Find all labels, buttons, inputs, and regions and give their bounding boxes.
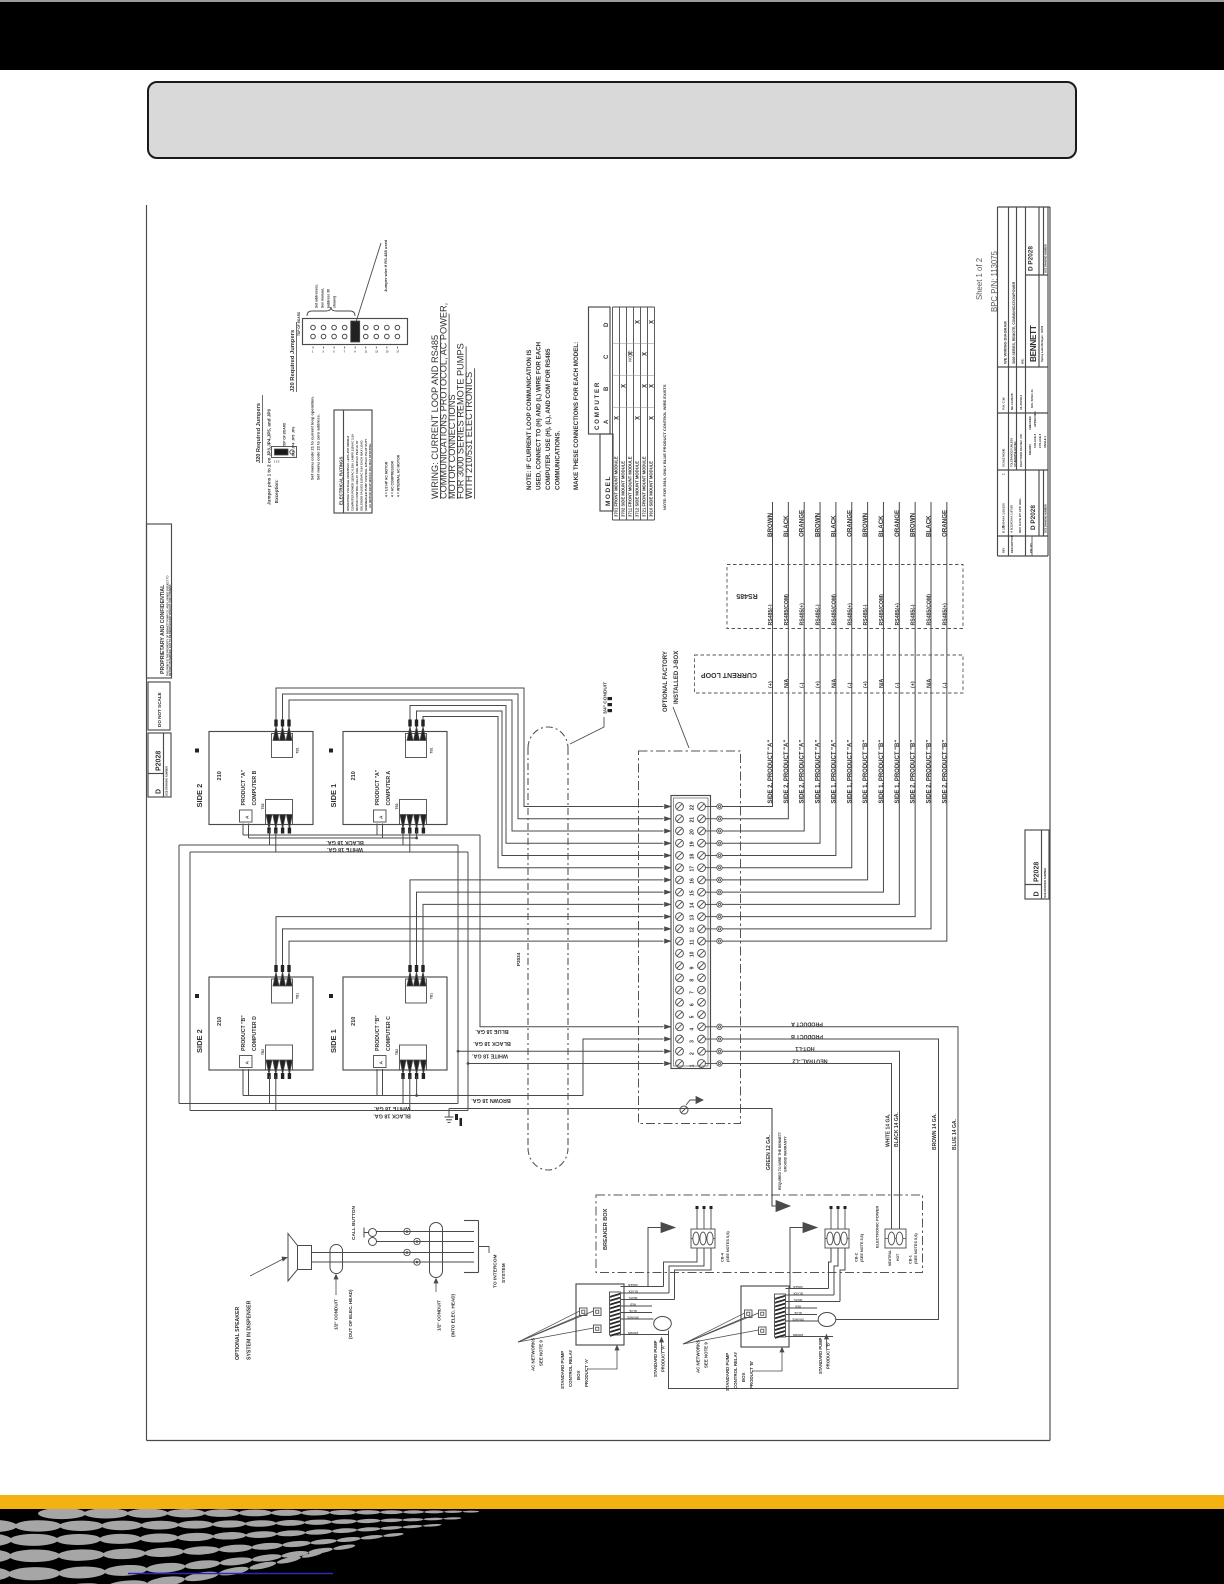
svg-text:(address 36: (address 36 — [327, 289, 331, 308]
circuit breaker CB-2 — [825, 1206, 849, 1248]
svg-text:BLACK: BLACK — [878, 515, 885, 537]
wire to RS-485 jumper note — [356, 243, 381, 322]
do not scale stamp — [148, 682, 170, 730]
svg-text:ELECTRONIC POWER: ELECTRONIC POWER — [875, 1206, 880, 1248]
svg-text:ORANGE: ORANGE — [627, 1315, 639, 1319]
svg-text:RS485(-): RS485(-) — [816, 604, 822, 625]
pump motor A — [654, 1317, 672, 1331]
svg-text:NEUTRAL: NEUTRAL — [888, 1250, 892, 1266]
svg-text:BOX: BOX — [741, 1372, 746, 1382]
svg-text:(SEE NOTES 5,6): (SEE NOTES 5,6) — [914, 1233, 918, 1264]
svg-text:SIDE 2: SIDE 2 — [195, 1029, 204, 1053]
relay box A label — [560, 1346, 619, 1390]
svg-text:N/A: N/A — [927, 679, 933, 688]
wire computer D ORANGE to terminal 11 — [289, 941, 664, 965]
svg-text:3701 FRONT MOUNT MODULE: 3701 FRONT MOUNT MODULE — [614, 456, 619, 517]
svg-text:N/A: N/A — [831, 679, 837, 688]
svg-text:P2034: P2034 — [516, 952, 521, 966]
AC networks note B — [696, 1340, 709, 1373]
svg-text:NEUTRAL.-L2: NEUTRAL.-L2 — [792, 1057, 827, 1063]
svg-text:15: 15 — [690, 890, 696, 896]
circuit breaker CB-4 — [691, 1206, 715, 1248]
svg-text:STANDARD PUMP: STANDARD PUMP — [818, 1337, 823, 1374]
AC networks note A — [531, 1338, 544, 1371]
svg-text:WE.: WE. — [1021, 358, 1025, 364]
svg-text:4 = 1/2 HP AC MOTOR: 4 = 1/2 HP AC MOTOR — [385, 461, 389, 497]
svg-text:MOTOR CONTROL RELAY COIL 115VA: MOTOR CONTROL RELAY COIL 115VAC PER UL 8… — [355, 440, 359, 511]
svg-text:BROWN: BROWN — [815, 512, 822, 537]
svg-text:SIDE 2, PRODUCT "B": SIDE 2, PRODUCT "B" — [927, 740, 933, 804]
current loop usage note — [526, 341, 562, 490]
svg-text:HOT: HOT — [896, 1253, 900, 1261]
svg-text:13: 13 — [375, 351, 378, 354]
svg-text:BLACK: BLACK — [783, 515, 790, 537]
svg-text:BPC P/N: 113075: BPC P/N: 113075 — [990, 250, 999, 312]
svg-text:TB1: TB1 — [430, 993, 434, 999]
svg-text:PRODUCT 'B': PRODUCT 'B' — [749, 1361, 754, 1389]
svg-text:AC MOTOR 1/2HP 115VAC 16A MAX: AC MOTOR 1/2HP 115VAC 16A MAX STARTING — [368, 443, 372, 508]
svg-text:WHITE 18 GA.: WHITE 18 GA. — [374, 1105, 410, 1111]
svg-text:GREEN 12 GA.: GREEN 12 GA. — [766, 1134, 772, 1170]
svg-text:REQUIRED TO WIRE THE BENNETT: REQUIRED TO WIRE THE BENNETT — [778, 1131, 782, 1190]
svg-text:13: 13 — [690, 915, 696, 921]
svg-text:SIDE 2, PRODUCT "B": SIDE 2, PRODUCT "B" — [911, 740, 917, 804]
svg-text:D: D — [604, 322, 610, 327]
model computer table — [589, 307, 655, 520]
svg-text:SIDE 1: SIDE 1 — [329, 784, 338, 808]
svg-text:X: X — [615, 416, 621, 420]
conduit label pointer — [570, 717, 604, 744]
svg-text:11: 11 — [690, 939, 696, 945]
sheet left border — [146, 205, 148, 1441]
white 18ga rail bottom — [190, 1110, 468, 1112]
svg-text:X: X — [650, 384, 656, 388]
svg-text:J20 Required Jumpers: J20 Required Jumpers — [290, 330, 296, 392]
svg-text:1/2" CONDUIT: 1/2" CONDUIT — [437, 1300, 442, 1331]
svg-text:SIDE 1, PRODUCT "A": SIDE 1, PRODUCT "A" — [816, 740, 822, 804]
relay B wire BLACK — [786, 1294, 835, 1296]
CB-1 label — [909, 1233, 919, 1264]
to intercom system label — [493, 1255, 508, 1289]
svg-text:GREEN: GREEN — [793, 1285, 803, 1289]
circuit breaker CB-1 — [885, 1229, 906, 1248]
svg-text:X: X — [636, 416, 642, 420]
svg-text:17: 17 — [690, 866, 696, 872]
svg-text:TB1: TB1 — [430, 747, 434, 753]
svg-text:BLACK 14 GA.: BLACK 14 GA. — [894, 1112, 900, 1147]
svg-text:(-): (-) — [800, 682, 806, 688]
drawing number stamp D P2028 left — [148, 733, 171, 797]
svg-text:WHITE 14 GA.: WHITE 14 GA. — [886, 1113, 892, 1147]
relay A wire BLUE — [621, 1312, 653, 1314]
title block frame — [998, 207, 1051, 556]
svg-text:ANGLE 1: ANGLE 1 — [1043, 435, 1047, 448]
svg-text:MODEL: MODEL — [605, 475, 612, 506]
svg-text:BROWN 14 GA.: BROWN 14 GA. — [932, 1113, 938, 1150]
svg-text:4 = INTERNAL AC MOTOR: 4 = INTERNAL AC MOTOR — [397, 454, 401, 497]
relay B wire GREEN — [786, 1288, 829, 1290]
speaker label — [235, 1257, 287, 1360]
brown 18ga product B rail — [243, 1069, 583, 1097]
gold footer bar — [0, 1495, 1224, 1509]
svg-text:TB1: TB1 — [296, 747, 300, 753]
svg-text:CB-4: CB-4 — [721, 1252, 725, 1262]
svg-text:NOTE: IF CURRENT LOOP COMMUNIC: NOTE: IF CURRENT LOOP COMMUNICATION IS — [526, 350, 533, 490]
svg-text:3 PLACE 8: 3 PLACE 8 — [1033, 433, 1037, 448]
computer C power drops — [402, 1076, 404, 1104]
svg-text:PRODUCT "A": PRODUCT "A" — [375, 769, 381, 805]
svg-text:1/2" CONDUIT: 1/2" CONDUIT — [334, 1299, 339, 1330]
svg-text:X: X — [643, 384, 649, 388]
svg-text:RS485(COM): RS485(COM) — [879, 594, 885, 626]
wire computer C BLACK to terminal 15 — [417, 892, 664, 965]
white riser to terminal 1 — [467, 852, 469, 1111]
svg-text:BLACK: BLACK — [830, 515, 837, 537]
green ground wire — [449, 1109, 776, 1207]
svg-text:TOLERANCES UNLESS: TOLERANCES UNLESS — [1010, 438, 1014, 467]
wire computer B BLACK to terminal 21 — [283, 694, 664, 819]
conduit oval out of head — [330, 1245, 343, 1274]
svg-text:SIDE 2, PRODUCT "A": SIDE 2, PRODUCT "A" — [784, 740, 790, 804]
svg-text:SIDE 1, PRODUCT "A": SIDE 1, PRODUCT "A" — [831, 740, 837, 804]
svg-text:SIDE 1, PRODUCT "B": SIDE 1, PRODUCT "B" — [863, 740, 869, 804]
blue underline accent — [128, 1573, 333, 1575]
half inch conduit out label — [334, 1275, 354, 1340]
svg-text:NE 11/26/28: NE 11/26/28 — [1010, 393, 1014, 410]
terminal strip TB — [671, 796, 711, 1069]
svg-text:PRODUCT B: PRODUCT B — [791, 1033, 823, 1039]
svg-text:21: 21 — [690, 817, 696, 823]
svg-text:(+): (+) — [768, 681, 774, 688]
svg-text:CB-1: CB-1 — [909, 1255, 913, 1264]
computer COMPUTER A product output A — [374, 810, 387, 822]
svg-text:C O M P U T E R: C O M P U T E R — [594, 382, 601, 430]
wire computer B ORANGE to terminal 20 — [289, 700, 664, 831]
call button — [364, 1228, 377, 1246]
svg-text:SCALE NONE: SCALE NONE — [1002, 449, 1006, 467]
wiring title text — [430, 303, 475, 499]
svg-text:8: 8 — [690, 979, 696, 982]
svg-text:WITH 210/531 ELECTRONICS: WITH 210/531 ELECTRONICS — [464, 372, 474, 499]
svg-text:REV DATE BY APP. REC.: REV DATE BY APP. REC. — [1018, 498, 1022, 533]
svg-text:RS485(-): RS485(-) — [863, 604, 869, 625]
svg-text:1: 1 — [1002, 473, 1006, 475]
wire terminal 18 to BLACK RS485(COM) lead — [722, 502, 836, 855]
svg-text:COMPUTER C: COMPUTER C — [386, 1016, 392, 1051]
current loop group box — [695, 655, 964, 693]
black footer — [0, 1509, 1224, 1584]
svg-text:PRODUCT 'A': PRODUCT 'A' — [661, 1345, 666, 1372]
jumper plug detail — [272, 447, 297, 464]
breaker box outline — [596, 1195, 923, 1273]
svg-text:PRODUCT "B": PRODUCT "B" — [375, 1015, 381, 1051]
wire terminal 17 to ORANGE RS485(+) lead — [722, 502, 852, 868]
svg-text:5: 5 — [690, 1015, 696, 1018]
CB-4 load wires — [664, 1248, 712, 1300]
half inch conduit into label — [434, 1279, 456, 1338]
svg-text:STANDARD PUMP: STANDARD PUMP — [725, 1353, 730, 1391]
svg-text:SIDE 2, PRODUCT "B": SIDE 2, PRODUCT "B" — [942, 740, 948, 804]
terminal lead-in arrows — [665, 804, 671, 1065]
svg-text:BLACK 18 GA.: BLACK 18 GA. — [326, 839, 364, 845]
svg-text:ELECTRICAL RATINGS: ELECTRICAL RATINGS — [339, 457, 344, 505]
svg-text:RED: RED — [795, 1304, 801, 1308]
svg-text:1 2 3: 1 2 3 — [274, 461, 280, 464]
J-box label — [663, 651, 680, 712]
computer COMPUTER D connector TB2 — [261, 1045, 293, 1079]
call button wires — [377, 1232, 475, 1242]
svg-text:BLACK: BLACK — [628, 1289, 637, 1293]
svg-text:PRODUCT "B": PRODUCT "B" — [241, 1015, 247, 1051]
svg-text:CHECKED: CHECKED — [1028, 416, 1032, 430]
svg-text:A: A — [604, 419, 610, 424]
svg-text:A: A — [245, 815, 251, 819]
ground arrow into breaker box — [776, 1201, 790, 1212]
svg-text:P2028: P2028 — [1034, 862, 1041, 882]
svg-text:COMMUNICATIONS.: COMMUNICATIONS. — [555, 430, 562, 490]
svg-text:3712 SIDE MOUNT MODULE: 3712 SIDE MOUNT MODULE — [635, 461, 640, 517]
product/hot/neutral terminal labels — [791, 1021, 828, 1064]
svg-text:Exception:: Exception: — [274, 479, 279, 503]
14ga wire labels — [886, 1112, 959, 1150]
svg-text:RS485(COM): RS485(COM) — [831, 594, 837, 626]
blue 18ga product A rail — [243, 824, 480, 840]
svg-text:TB2: TB2 — [395, 803, 399, 809]
svg-text:(+): (+) — [911, 681, 917, 688]
computer B power drops — [269, 830, 271, 845]
svg-text:9: 9 — [354, 351, 356, 354]
wire terminal 12 to BLACK RS485(COM) lead — [722, 502, 931, 929]
svg-text:10: 10 — [690, 951, 696, 957]
relay A terminal strip — [610, 1292, 621, 1336]
CB-2 load wires — [829, 1248, 846, 1302]
wire terminal 16 to BROWN RS485(-) lead — [722, 502, 867, 880]
svg-text:CONTROL RELAY: CONTROL RELAY — [733, 1352, 738, 1389]
svg-text:RS485(+): RS485(+) — [942, 603, 948, 626]
earth ground stake — [445, 1109, 463, 1127]
svg-text:210: 210 — [351, 1017, 357, 1026]
computer COMPUTER D product output A — [240, 1056, 253, 1068]
svg-text:210: 210 — [217, 771, 223, 780]
svg-text:X: X — [650, 320, 656, 324]
wire computer C BROWN to terminal 16 — [410, 880, 664, 965]
JP3-JP6 list — [283, 422, 296, 457]
svg-text:(SEE NOTE 5,6): (SEE NOTE 5,6) — [860, 1233, 864, 1262]
svg-text:4: 4 — [690, 1028, 696, 1031]
svg-text:BROWN: BROWN — [793, 1333, 804, 1337]
svg-text:20: 20 — [690, 829, 696, 835]
computer COMPUTER A box — [329, 732, 447, 825]
svg-text:1: 1 — [690, 1064, 696, 1067]
wire computer A BROWN to terminal 19 — [410, 706, 664, 844]
left riser black — [178, 845, 180, 1104]
intercom wire terminals — [404, 1228, 420, 1265]
sheet bottom border — [147, 1440, 1051, 1442]
computer COMPUTER C product output A — [374, 1056, 387, 1068]
black 18ga rail top — [179, 844, 458, 846]
svg-text:PRODUCT A: PRODUCT A — [791, 1021, 823, 1027]
relay B terminal strip — [775, 1294, 786, 1338]
svg-text:SIDE 2: SIDE 2 — [195, 784, 204, 808]
svg-text:SYSTEM IN DISPENSER: SYSTEM IN DISPENSER — [247, 1300, 253, 1360]
svg-text:RS485(-): RS485(-) — [768, 604, 774, 625]
svg-text:A: A — [245, 1061, 251, 1065]
speaker wires — [312, 1253, 475, 1263]
svg-text:JP5: JP5 — [292, 435, 296, 441]
electrical ratings table — [334, 410, 372, 513]
svg-text:4 = AC COMPRESSOR: 4 = AC COMPRESSOR — [391, 460, 395, 497]
svg-text:NOTE: FOR 3910, ONLY BLUE PROD: NOTE: FOR 3910, ONLY BLUE PRODUCT CONTRO… — [662, 384, 667, 510]
svg-text:3721 FRONT MOUNT MODULE: 3721 FRONT MOUNT MODULE — [642, 456, 647, 517]
svg-text:SEE NOTE 9: SEE NOTE 9 — [539, 1340, 544, 1366]
svg-text:Set menu code 21 to current lo: Set menu code 21 to current loop operati… — [310, 396, 315, 480]
svg-text:(SEE NOTES 5,6): (SEE NOTES 5,6) — [726, 1231, 730, 1262]
svg-text:ORANGE: ORANGE — [941, 510, 948, 537]
svg-text:SIZE DRAWING NUMBER: SIZE DRAWING NUMBER — [1044, 868, 1047, 898]
svg-text:WHITE: WHITE — [793, 1298, 802, 1302]
svg-text:RS485(COM): RS485(COM) — [927, 594, 933, 626]
svg-text:X: X — [622, 384, 628, 388]
svg-text:ORANGE: ORANGE — [799, 510, 806, 537]
svg-text:15: 15 — [386, 351, 389, 354]
wire hot L1 to terminal 2 — [458, 1050, 664, 1052]
wire brown riser to terminal 3 — [583, 1039, 664, 1095]
svg-text:GROUND WARRANTY: GROUND WARRANTY — [784, 1136, 788, 1172]
neutral hot labels — [888, 1250, 900, 1266]
svg-text:1: 1 — [312, 351, 314, 354]
svg-text:FRACTIONS 1/64 DEC .005: FRACTIONS 1/64 DEC .005 — [1019, 434, 1023, 467]
wire computer D BROWN to terminal 13 — [276, 917, 664, 965]
svg-text:Jumper wire if RS-485 used: Jumper wire if RS-485 used — [383, 239, 388, 292]
svg-text:A: A — [379, 815, 385, 819]
green wire labels — [766, 1131, 788, 1190]
wire terminal 14 to ORANGE RS485(+) lead — [722, 502, 899, 904]
svg-text:7: 7 — [344, 351, 346, 354]
svg-text:SYSTEM: SYSTEM — [501, 1263, 507, 1283]
svg-text:SIDE 1: SIDE 1 — [329, 1029, 338, 1053]
svg-text:BLACK 18 GA.: BLACK 18 GA. — [373, 1112, 411, 1118]
svg-text:INSTALLED J-BOX: INSTALLED J-BOX — [674, 651, 680, 704]
svg-text:DESCRIPTION: DESCRIPTION — [1010, 535, 1014, 553]
svg-text:BLUE 18 GA.: BLUE 18 GA. — [475, 1028, 509, 1034]
svg-text:See manual,: See manual, — [321, 288, 325, 308]
svg-text:BROWN: BROWN — [862, 512, 869, 537]
3/4 inch conduit outline — [528, 727, 568, 1170]
wire black 14ga terminal 2 to CB-1 — [722, 1051, 899, 1229]
black riser to terminal 2 — [457, 845, 459, 1104]
svg-text:AC NETWORKS: AC NETWORKS — [696, 1340, 701, 1373]
svg-text:BREAKER BOX: BREAKER BOX — [603, 1208, 609, 1250]
svg-text:RS485(COM): RS485(COM) — [784, 594, 790, 626]
wire computer A BLACK to terminal 18 — [417, 711, 664, 855]
svg-text:OPTIONAL SPEAKER: OPTIONAL SPEAKER — [235, 1307, 241, 1360]
relay B wire ORANGE — [786, 1320, 819, 1322]
svg-text:BLUE: BLUE — [629, 1309, 637, 1313]
svg-text:(OUT OF ELEC. HEAD): (OUT OF ELEC. HEAD) — [348, 1289, 353, 1339]
svg-text:BROWN 18 GA.: BROWN 18 GA. — [471, 1097, 511, 1103]
relay A wire BLACK — [621, 1292, 670, 1294]
svg-text:HOT-L1: HOT-L1 — [795, 1045, 814, 1051]
relay B wire BLUE — [786, 1314, 818, 1316]
svg-text:Set addresses.: Set addresses. — [315, 284, 319, 308]
svg-text:(-): (-) — [847, 682, 853, 688]
svg-text:2 PLACE 8: 2 PLACE 8 — [1038, 433, 1042, 448]
jumper header pin labels — [312, 351, 400, 354]
svg-text:X: X — [643, 352, 649, 356]
svg-text:BLUE: BLUE — [794, 1311, 802, 1315]
svg-text:STANDARD PUMP: STANDARD PUMP — [560, 1351, 565, 1389]
relay A feed arrow — [648, 1223, 675, 1287]
wire brown 14ga terminal 3 to pump motor B — [722, 1039, 938, 1319]
svg-text:Spring Lake Michigan , 49456: Spring Lake Michigan , 49456 — [1040, 325, 1044, 362]
svg-text:SIZE DRAWING NUMBER: SIZE DRAWING NUMBER — [1045, 244, 1048, 273]
J20 jumper header connector — [303, 319, 408, 349]
svg-text:JP4: JP4 — [292, 443, 296, 449]
svg-text:SIDE 2, PRODUCT "A": SIDE 2, PRODUCT "A" — [800, 740, 806, 804]
svg-text:SIDE 2, PRODUCT "A": SIDE 2, PRODUCT "A" — [768, 740, 774, 804]
wire computer A ORANGE to terminal 17 — [423, 717, 664, 868]
svg-text:16: 16 — [690, 878, 696, 884]
svg-text:3000 SERIES, REMOTE, COMMUNICA: 3000 SERIES, REMOTE, COMMUNICATION/POWER — [1012, 281, 1016, 364]
conduit oval into head — [430, 1223, 443, 1278]
pump control relay box B — [741, 1286, 789, 1347]
svg-text:RS485(+): RS485(+) — [895, 603, 901, 626]
svg-text:TB1: TB1 — [296, 993, 300, 999]
wire white 14ga terminal 1 to CB-1 — [722, 1064, 891, 1230]
wire blue riser to terminal 4 — [480, 835, 664, 1027]
svg-text:22: 22 — [690, 805, 696, 811]
svg-text:03-25158.2: 03-25158.2 — [1019, 394, 1023, 410]
svg-text:OTHERWISE NOTED: OTHERWISE NOTED — [1013, 441, 1017, 467]
svg-text:REV: REV — [1002, 547, 1006, 553]
svg-text:P.M. C.W.: P.M. C.W. — [1002, 397, 1006, 410]
svg-text:D: D — [156, 789, 163, 794]
CB-2 label — [855, 1233, 865, 1262]
svg-text:3: 3 — [323, 351, 325, 354]
top black banner — [0, 2, 1224, 70]
svg-text:BROWN: BROWN — [767, 512, 774, 537]
svg-text:OPTIONAL FACTORY: OPTIONAL FACTORY — [663, 651, 669, 712]
svg-text:17: 17 — [396, 351, 399, 354]
svg-text:(INTO ELEC. HEAD): (INTO ELEC. HEAD) — [451, 1293, 456, 1337]
svg-text:D P2028: D P2028 — [1030, 505, 1037, 530]
svg-text:TOP OF BOARD: TOP OF BOARD — [283, 422, 287, 447]
conduit label — [603, 682, 613, 714]
svg-text:OPERATING VOLTAGE 115/230VAC +: OPERATING VOLTAGE 115/230VAC +10%-15% 50… — [346, 436, 350, 511]
svg-text:3910 SIDE MOUNT MODULE: 3910 SIDE MOUNT MODULE — [649, 461, 654, 517]
svg-text:MAKE THESE CONNECTIONS FOR EAC: MAKE THESE CONNECTIONS FOR EACH MODEL: — [573, 342, 580, 490]
svg-text:B: B — [604, 386, 610, 391]
svg-text:CB-2: CB-2 — [855, 1253, 859, 1262]
terminal right side lugs — [705, 804, 722, 1066]
svg-text:11: 11 — [365, 351, 368, 354]
svg-text:210: 210 — [217, 1017, 223, 1026]
svg-text:ORANGE: ORANGE — [894, 510, 901, 537]
ground lug symbol — [680, 1097, 703, 1115]
relay A wire WHITE — [621, 1299, 675, 1301]
svg-text:PRODUCT 'A': PRODUCT 'A' — [584, 1359, 589, 1387]
brace over jumper pins — [307, 307, 355, 316]
J20 required jumpers heading — [290, 322, 297, 392]
svg-text:RS485(+): RS485(+) — [800, 603, 806, 626]
wire blue 14ga terminal 4 to pump motor A — [669, 1027, 959, 1389]
svg-text:9: 9 — [690, 966, 696, 969]
svg-text:A 9/12/03AA 1.8T.69: A 9/12/03AA 1.8T.69 — [1010, 505, 1014, 533]
svg-text:WE WIRING DIAGRAM: WE WIRING DIAGRAM — [1003, 321, 1008, 364]
wire terminal 13 to BROWN RS485(-) lead — [722, 502, 915, 917]
svg-text:TB2: TB2 — [261, 1049, 265, 1055]
svg-text:STANDARD PUMP: STANDARD PUMP — [653, 1340, 658, 1377]
